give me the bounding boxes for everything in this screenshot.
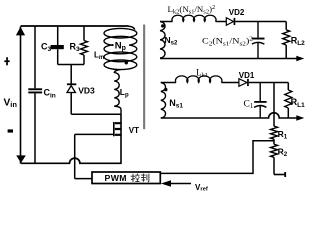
ground: [274, 174, 285, 176]
wire left rail (Vin branch): [20, 27, 22, 164]
capacitor Cin plates: [28, 88, 42, 90]
svg-text:Lk2(Ns1/Ns2)2: Lk2(Ns1/Ns2)2: [168, 4, 216, 15]
svg-text:VD3: VD3: [78, 85, 95, 95]
svg-text:C2(Ns1/Ns2)2: C2(Ns1/Ns2)2: [202, 36, 254, 47]
wire gate drive vertical: [74, 134, 76, 178]
winding Ns2: [160, 22, 165, 59]
svg-text:VD1: VD1: [239, 71, 255, 80]
diode VD1 triangle: [239, 79, 247, 87]
winding Ns1: [161, 83, 166, 119]
wire Ns2 to Lk2: [160, 21, 173, 23]
wire VD2 to RL2: [235, 21, 286, 23]
arrow output2 rail: [296, 56, 304, 61]
svg-text:R2: R2: [278, 147, 288, 159]
polarity dot Ns1: [164, 88, 167, 91]
svg-text:Lp: Lp: [120, 87, 129, 99]
wire VD3 to drain node: [71, 113, 121, 115]
resistor R1: [271, 126, 278, 139]
transistor VT channel/drain/source line: [120, 114, 122, 163]
svg-text:R3: R3: [70, 41, 81, 53]
capacitor C1 top plate: [254, 101, 266, 103]
diode VD2 cathode bar: [234, 18, 236, 25]
wire Lk1 to VD1: [221, 82, 239, 84]
capacitor C1 curved plate: [254, 106, 266, 108]
capacitor C2 wire top: [257, 22, 259, 38]
polarity dot Np: [125, 61, 128, 64]
wire R1-R2 junction: [273, 139, 275, 144]
resistor RL1: [287, 83, 289, 91]
arrow Vref into PWM box: [161, 180, 171, 187]
svg-text:RL2: RL2: [291, 35, 305, 47]
svg-text:RL1: RL1: [291, 97, 305, 109]
label 控制 (control): [131, 174, 136, 182]
diode VD3 triangle: [67, 86, 75, 93]
arrow up (Vin + direction): [16, 27, 25, 36]
label +: [4, 60, 9, 62]
polarity dot Ns2: [161, 24, 164, 27]
resistor R3: [83, 26, 85, 41]
svg-text:C1: C1: [244, 99, 254, 110]
wire Lk2 to VD2: [216, 21, 227, 23]
svg-text:Cin: Cin: [44, 88, 56, 100]
transistor VT channel bars: [115, 123, 122, 135]
capacitor C3 plates: [51, 45, 64, 49]
svg-text:Lk1: Lk1: [196, 67, 208, 79]
inductor Lk1: [175, 76, 221, 83]
wire VD1 to RL1: [249, 82, 288, 84]
capacitor C2 curved plate: [252, 42, 265, 44]
svg-text:Vin: Vin: [4, 97, 18, 109]
svg-text:R1: R1: [278, 129, 288, 141]
diode VD2 triangle: [226, 18, 233, 26]
transistor VT gate bar: [113, 122, 115, 136]
svg-text:VT: VT: [129, 126, 139, 135]
PWM controller box: [92, 172, 160, 184]
wire output1 to R1: [273, 83, 275, 127]
capacitor Cin wire: [34, 26, 36, 163]
resistor R2: [271, 144, 278, 157]
wire top rail: [21, 25, 129, 27]
diode VD3 cathode bar: [67, 83, 76, 85]
wire gate: [75, 133, 114, 135]
svg-text:C3: C3: [41, 41, 52, 53]
diode VD3 wire: [70, 65, 72, 115]
svg-text:Ns2: Ns2: [165, 35, 178, 47]
inductor Lm / primary winding Np: [104, 28, 137, 38]
arrow down (Vin - direction): [16, 155, 26, 163]
diode VD1 cathode bar: [247, 79, 249, 86]
arrow output1 rail: [296, 115, 304, 120]
capacitor C3 wire: [57, 26, 59, 65]
wire output2 bottom rail: [160, 58, 297, 60]
inductor Lp (primary leakage): [114, 73, 119, 107]
svg-text:Ns1: Ns1: [169, 98, 183, 110]
wire R2 to ground: [273, 157, 275, 174]
wire into PWM box: [75, 178, 92, 180]
wire bottom rail with hop over gate wire: [21, 158, 122, 163]
resistor RL2: [285, 22, 287, 30]
wire output1 bottom rail with hop: [161, 113, 297, 118]
svg-text:PWM: PWM: [105, 173, 127, 183]
inductor Lk2: [172, 15, 216, 21]
wire snubber bottom join: [58, 64, 84, 66]
svg-text:Lm: Lm: [94, 51, 104, 62]
label Np: [114, 41, 130, 52]
label -: [8, 129, 13, 132]
wire Ns1 to Lk1: [161, 82, 176, 84]
wire feedback from divider to PWM box: [160, 141, 274, 174]
svg-text:VD2: VD2: [229, 8, 245, 17]
transformer core: [143, 25, 145, 130]
svg-text:Vref: Vref: [195, 183, 208, 193]
capacitor C1 wire top: [259, 83, 261, 102]
capacitor C2 top plate: [252, 38, 265, 40]
